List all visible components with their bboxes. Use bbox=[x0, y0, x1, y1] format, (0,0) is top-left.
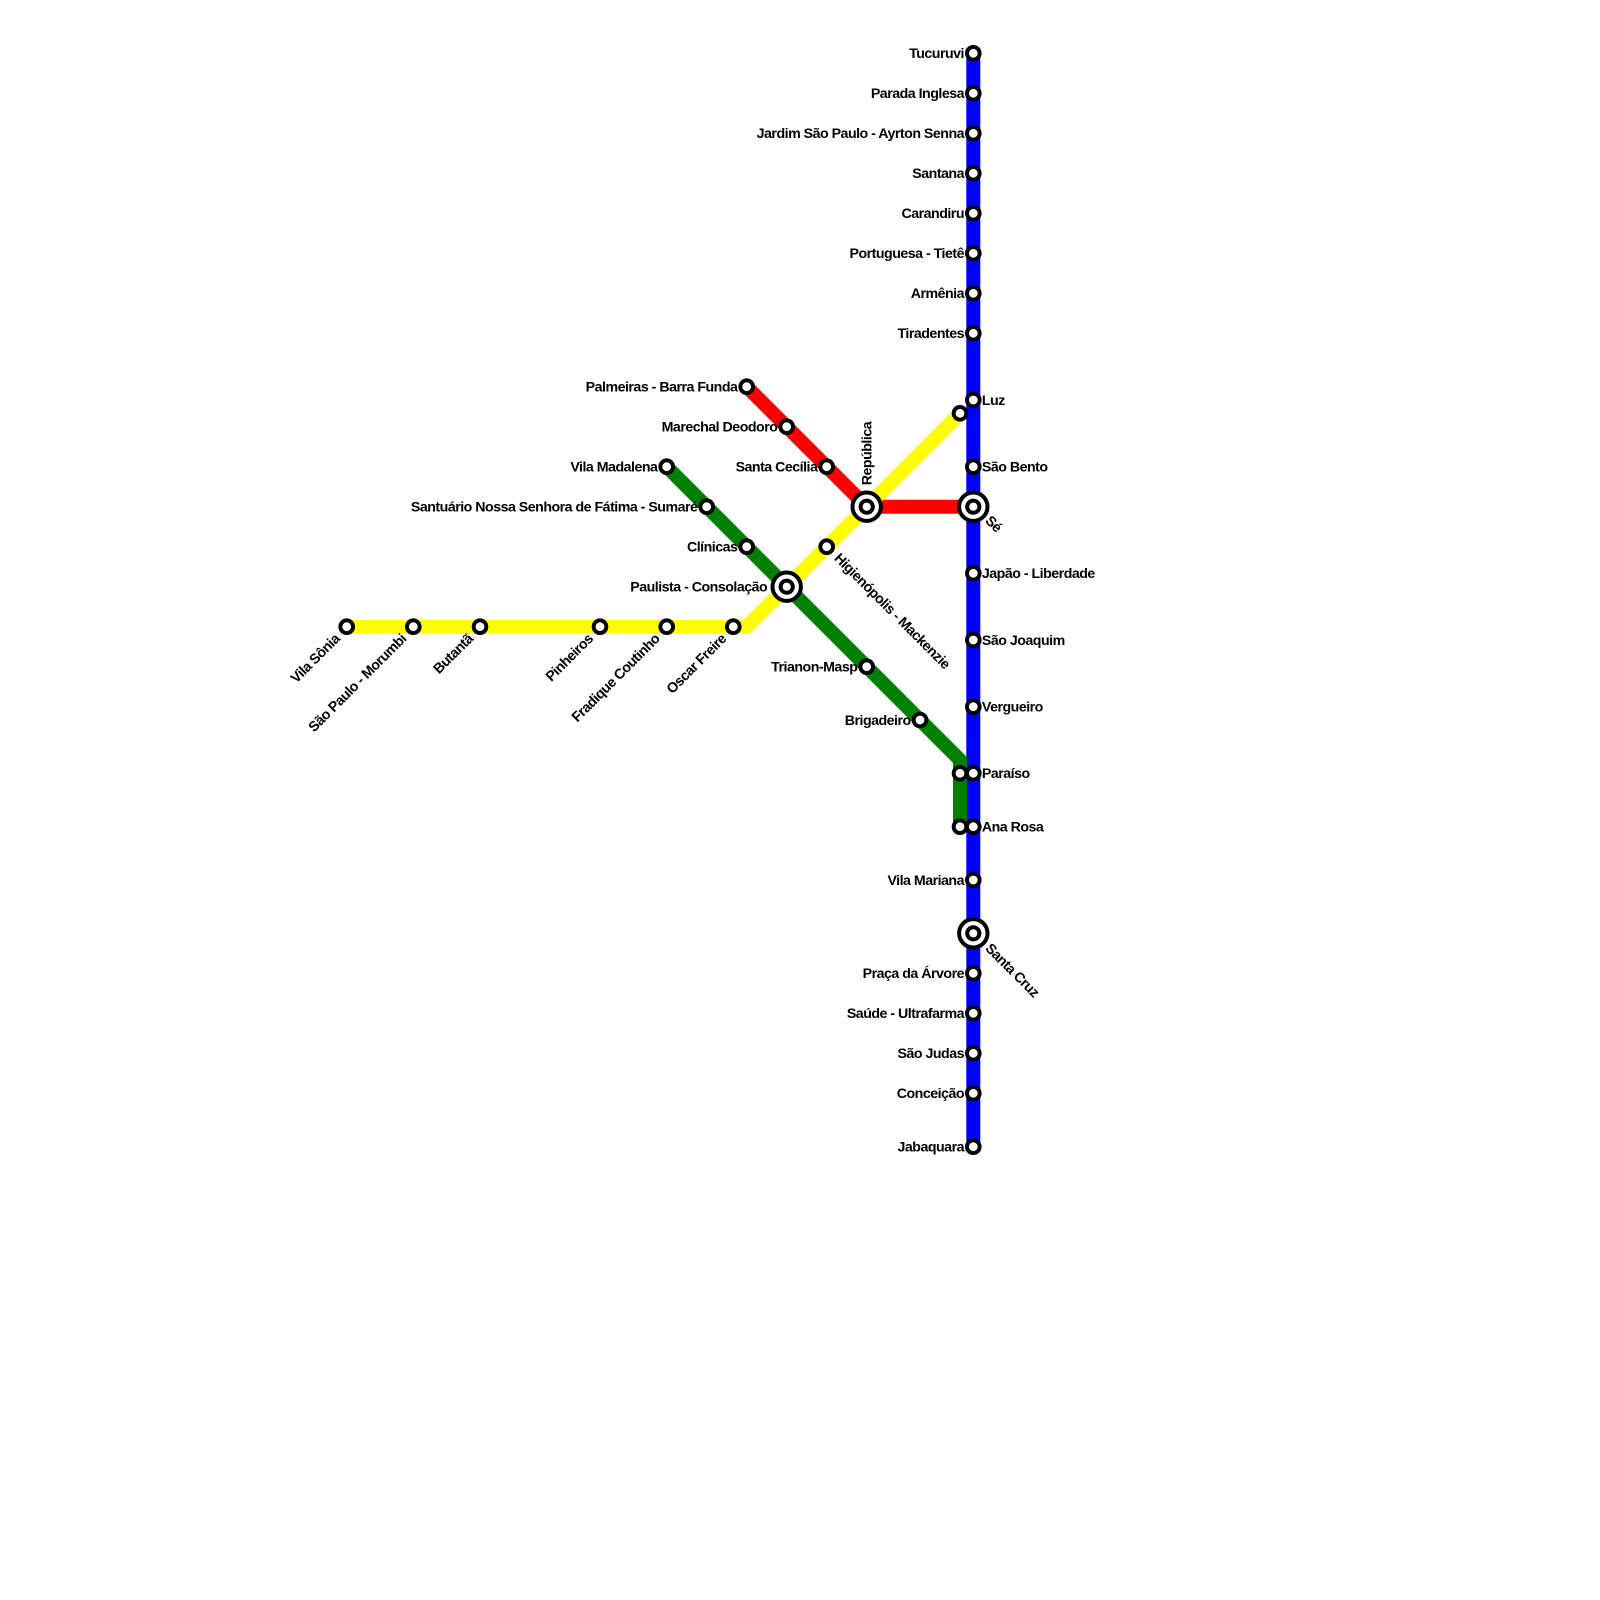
node Paraiso green bbox=[954, 767, 967, 780]
svg-text:Palmeiras - Barra Funda: Palmeiras - Barra Funda bbox=[586, 380, 738, 396]
node Paraiso blue bbox=[967, 767, 980, 780]
svg-text:Santana: Santana bbox=[912, 166, 964, 182]
node Palmeiras - Barra Funda bbox=[740, 380, 753, 393]
svg-text:Saúde - Ultrafarma: Saúde - Ultrafarma bbox=[847, 1006, 965, 1022]
node Ana Rosa green bbox=[954, 820, 967, 833]
svg-text:Brigadeiro: Brigadeiro bbox=[845, 713, 912, 729]
svg-text:São Bento: São Bento bbox=[982, 460, 1048, 476]
svg-text:Japão - Liberdade: Japão - Liberdade bbox=[982, 566, 1096, 582]
node Santa Cruz interchange bbox=[959, 919, 987, 947]
node Vila Sonia bbox=[340, 620, 353, 633]
svg-text:Praça da Árvore: Praça da Árvore bbox=[863, 965, 965, 982]
node Brigadeiro bbox=[914, 714, 927, 727]
node Parada Inglesa bbox=[967, 87, 980, 100]
svg-text:Carandiru: Carandiru bbox=[901, 206, 964, 222]
node Luz yellow bbox=[954, 407, 967, 420]
node Santana bbox=[967, 167, 980, 180]
node Sao Paulo - Morumbi bbox=[407, 620, 420, 633]
node Ana Rosa blue bbox=[967, 820, 980, 833]
node Japao - Liberdade bbox=[967, 567, 980, 580]
node Armenia bbox=[967, 287, 980, 300]
svg-text:Jabaquara: Jabaquara bbox=[898, 1140, 965, 1156]
node Clinicas bbox=[740, 540, 753, 553]
svg-text:Vila Mariana: Vila Mariana bbox=[887, 873, 964, 889]
node Se interchange bbox=[959, 493, 987, 521]
node Higienopolis - Mackenzie bbox=[820, 540, 833, 553]
node Praca da Arvore bbox=[967, 967, 980, 980]
node Luz blue bbox=[967, 394, 980, 407]
node Butanta bbox=[474, 620, 487, 633]
node Tiradentes bbox=[967, 327, 980, 340]
node Marechal Deodoro bbox=[780, 420, 793, 433]
wire: red Line 3 Palmeiras-Se bbox=[747, 387, 974, 507]
node Paulista interchange bbox=[773, 573, 801, 601]
svg-text:Luz: Luz bbox=[982, 393, 1005, 409]
svg-text:Clínicas: Clínicas bbox=[687, 540, 738, 556]
node Republica interchange bbox=[853, 493, 881, 521]
node Sao Judas bbox=[967, 1047, 980, 1060]
node Carandiru bbox=[967, 207, 980, 220]
svg-text:São Joaquim: São Joaquim bbox=[982, 633, 1065, 649]
svg-text:Trianon-Masp: Trianon-Masp bbox=[771, 660, 858, 676]
svg-text:São Judas: São Judas bbox=[898, 1046, 965, 1062]
svg-text:Marechal Deodoro: Marechal Deodoro bbox=[662, 420, 779, 436]
svg-text:Paulista - Consolação: Paulista - Consolação bbox=[630, 580, 768, 596]
svg-text:Tiradentes: Tiradentes bbox=[898, 326, 965, 342]
svg-text:Tucuruvi: Tucuruvi bbox=[909, 46, 964, 62]
wire: green Line 2 Vila Madalena-Ana Rosa bbox=[667, 467, 960, 827]
node Oscar Freire bbox=[727, 620, 740, 633]
node Sao Joaquim bbox=[967, 634, 980, 647]
svg-text:Portuguesa - Tietê: Portuguesa - Tietê bbox=[849, 246, 964, 262]
svg-text:Santa Cecília: Santa Cecília bbox=[736, 460, 818, 476]
svg-text:Armênia: Armênia bbox=[911, 286, 965, 302]
node Sumare bbox=[700, 500, 713, 513]
node Tucuruvi bbox=[967, 47, 980, 60]
svg-text:Vila Madalena: Vila Madalena bbox=[570, 460, 658, 476]
svg-text:Vergueiro: Vergueiro bbox=[982, 700, 1044, 716]
svg-text:Santuário Nossa Senhora de Fát: Santuário Nossa Senhora de Fátima - Suma… bbox=[411, 500, 698, 516]
node Vergueiro bbox=[967, 700, 980, 713]
node Vila Madalena bbox=[660, 460, 673, 473]
svg-text:República: República bbox=[860, 421, 876, 485]
svg-text:Conceição: Conceição bbox=[897, 1086, 965, 1102]
wire: blue Line 1 Tucuruvi-Jabaquara bbox=[966, 53, 980, 1146]
node Jabaquara bbox=[967, 1140, 980, 1153]
svg-text:Jardim São Paulo - Ayrton Senn: Jardim São Paulo - Ayrton Senna bbox=[757, 126, 965, 142]
node Trianon-Masp bbox=[860, 660, 873, 673]
node Portuguesa-Tiete bbox=[967, 247, 980, 260]
node Santa Cecilia bbox=[820, 460, 833, 473]
svg-text:Parada Inglesa: Parada Inglesa bbox=[871, 86, 965, 102]
node Saude - Ultrafarma bbox=[967, 1007, 980, 1020]
node Vila Mariana bbox=[967, 874, 980, 887]
node Fradique Coutinho bbox=[660, 620, 673, 633]
node Conceicao bbox=[967, 1087, 980, 1100]
node Pinheiros bbox=[594, 620, 607, 633]
svg-text:Ana Rosa: Ana Rosa bbox=[982, 820, 1044, 836]
node Sao Bento bbox=[967, 460, 980, 473]
wire: yellow Line 4 Luz-Vila Sonia bbox=[347, 413, 960, 626]
node Jardim Sao Paulo bbox=[967, 127, 980, 140]
svg-text:Paraíso: Paraíso bbox=[982, 766, 1031, 782]
